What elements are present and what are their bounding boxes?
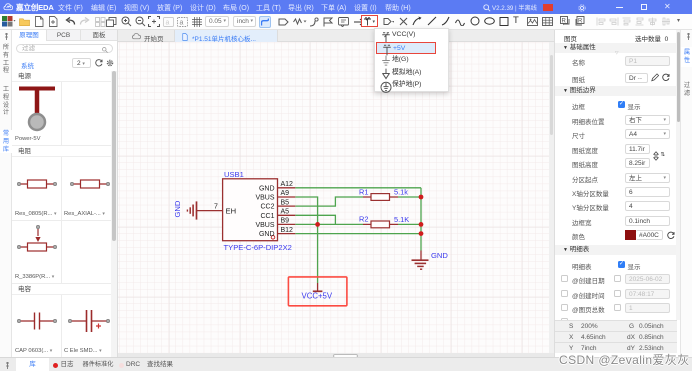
pin number B9 [281,218,290,225]
pin number B12 [281,227,294,234]
pin GND B12 [259,231,295,238]
svg-text:A5: A5 [281,209,290,216]
svg-text:GND: GND [173,200,182,217]
resistor R1 [363,194,398,201]
potentiometer cell [12,221,62,284]
junction dot R2-GND [419,222,424,227]
junction dot VBUS [315,222,320,227]
svg-text:A9: A9 [281,190,290,197]
svg-text:R: R [578,19,583,25]
right panel scrollbar [676,30,681,320]
USB1 value label TYPE-C-6P-DIP2X2 [224,243,292,252]
svg-text:R1: R1 [359,187,368,196]
pin CC1 A5 [260,213,295,220]
pin VBUS B9 [255,222,295,229]
pin number A5 [281,209,290,216]
op USB1 component body [223,179,278,241]
pin VBUS A9 [255,195,295,202]
pin number B5 [281,199,290,206]
svg-text:a: a [166,19,170,26]
wire A9 VBUS to junction [295,197,317,224]
value label 5.1K [394,215,409,224]
svg-text:5.1K: 5.1K [394,215,409,224]
value label 5.1k [394,188,408,197]
resistor R2 [363,221,398,228]
refdes label R1 [359,187,368,196]
svg-text:5.1k: 5.1k [394,188,408,197]
pin number A12 [281,181,294,188]
svg-text:EH: EH [226,207,237,216]
svg-text:TYPE-C-6P-DIP2X2: TYPE-C-6P-DIP2X2 [224,243,292,252]
USB1 refdes label [224,170,244,179]
svg-text:a: a [180,19,184,26]
pin CC2 B5 [260,204,295,211]
power +5V symbol with selection box [288,277,347,306]
svg-text:CC2: CC2 [260,204,274,211]
highlighted VCC tool button with red frame [361,15,378,27]
svg-text:CC1: CC1 [260,213,274,220]
pin number A9 [281,190,290,197]
svg-text:VBUS: VBUS [255,222,274,229]
svg-text:A12: A12 [281,181,294,188]
svg-text:R2: R2 [359,215,368,224]
svg-text:B9: B9 [281,218,290,225]
wire R2 output to GND rail [398,223,421,225]
capacitor cells [12,295,62,357]
junction dot B12-GND [419,231,424,236]
watermark [559,351,692,368]
refdes label R2 [359,215,368,224]
svg-text:USB1: USB1 [224,170,244,179]
junction dot R1-GND [419,195,424,200]
ground GND left (rotated) [173,200,197,219]
svg-text:GND: GND [431,251,448,260]
component cell: Power-5V [12,82,62,146]
wire GND rail vertical [420,188,422,251]
ground GND right [412,251,449,270]
svg-text:GND: GND [259,231,275,238]
svg-text:7: 7 [214,204,218,211]
resistor cells [12,157,62,221]
wire VBUS down to +5V [317,224,319,283]
wire R1 output to GND rail [398,196,421,198]
wire A12 GND net [295,187,421,189]
pin number 7 [214,204,218,211]
svg-text:B12: B12 [281,227,294,234]
wire B5 CC2 to R1 [295,197,363,206]
svg-text:VBUS: VBUS [255,195,274,202]
svg-text:VCC+5V: VCC+5V [302,292,333,301]
wire B12 GND net [295,233,421,235]
wire B9 VBUS to R2 [295,223,363,225]
pin EH [197,207,237,216]
svg-text:B5: B5 [281,199,290,206]
left panel scrollbar [111,71,117,357]
wire A5 CC1 jog down [295,215,335,224]
pin GND A12 [259,185,295,192]
vertical canvas scrollbar [549,42,555,353]
svg-text:GND: GND [259,185,275,192]
